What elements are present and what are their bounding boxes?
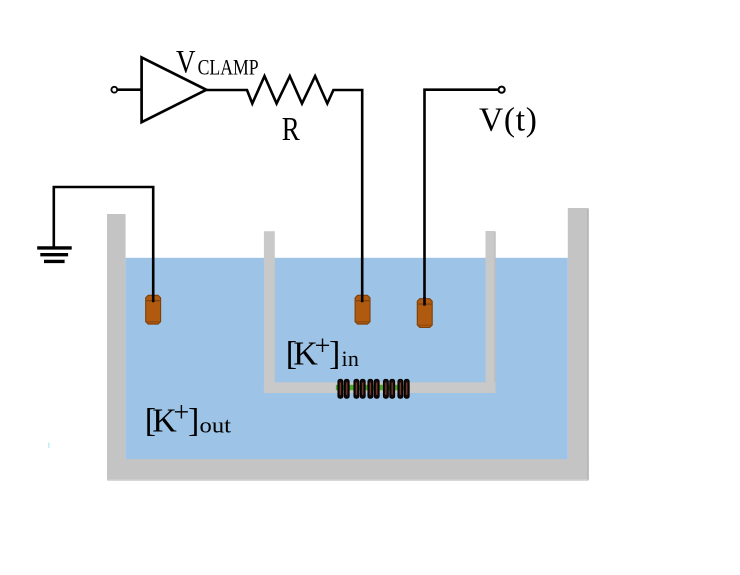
svg-text:V: V <box>176 45 196 81</box>
svg-text:in: in <box>342 346 360 371</box>
svg-text:]: ] <box>188 402 199 439</box>
svg-text:CLAMP: CLAMP <box>198 54 259 79</box>
svg-text:+: + <box>174 397 190 428</box>
svg-text:R: R <box>282 111 300 148</box>
svg-text:V(t): V(t) <box>479 102 538 139</box>
svg-text:out: out <box>200 413 232 438</box>
svg-text:]: ] <box>329 336 340 373</box>
